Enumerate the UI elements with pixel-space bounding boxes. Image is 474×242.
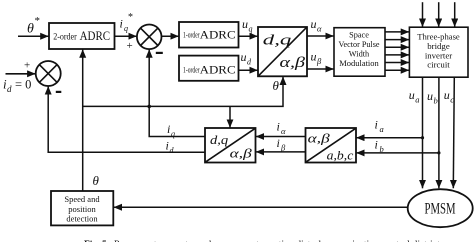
svg-text:b: b (434, 95, 438, 105)
node junction crossing dot iq/theta (147, 105, 151, 109)
summing junction 2 (36, 61, 61, 86)
svg-text:i: i (375, 138, 378, 152)
svg-text:a: a (415, 94, 419, 104)
wire SVPWM to inverter arrow 5 (385, 62, 409, 64)
summing junction 1 (137, 25, 162, 50)
wire i-alpha: abc block to reverse dq block (256, 136, 306, 138)
svg-text:1-order: 1-order (183, 65, 200, 74)
svg-text:u: u (444, 88, 450, 102)
svg-text:θ: θ (27, 22, 34, 37)
block dq to alpha-beta transform (reverse, current) (205, 128, 256, 163)
svg-text:= 0: = 0 (15, 78, 31, 92)
wire theta* input (18, 35, 49, 37)
svg-text:position: position (68, 204, 96, 214)
svg-text:d: d (7, 84, 12, 94)
svg-text:d,q: d,q (210, 132, 229, 147)
svg-text:α,β: α,β (230, 145, 253, 160)
svg-text:Space: Space (349, 31, 369, 40)
svg-text:*: * (128, 12, 133, 23)
node junction dot ia tap (421, 136, 424, 139)
wire ud: 1-order ADRC lower to dq/ab transform (239, 69, 258, 71)
svg-text:α: α (317, 24, 322, 34)
wire iq: reverse dq block to summing junction 1 (149, 49, 205, 136)
svg-text:Width: Width (349, 50, 370, 59)
wire id=0 input (6, 73, 36, 75)
node PMSM motor (408, 189, 473, 227)
wire phase b line inverter to PMSM (438, 77, 440, 188)
svg-text:Speed and: Speed and (64, 194, 100, 204)
wire id: reverse dq block to summing junction 2 (48, 86, 205, 152)
svg-text:Vector Pulse: Vector Pulse (339, 40, 380, 49)
svg-text:+: + (24, 60, 30, 72)
svg-text:q: q (124, 24, 128, 33)
block 1-order ADRC lower (179, 56, 239, 81)
wire dc supply arrow 2 into inverter top (438, 2, 440, 27)
svg-text:u: u (241, 50, 247, 64)
wire phase c line inverter to PMSM (453, 77, 454, 188)
wire i-beta: abc block to reverse dq block (256, 151, 306, 153)
svg-text:ADRC: ADRC (200, 30, 236, 42)
wire u-alpha: forward transform to SVPWM (307, 35, 333, 37)
wire ia tap from phase a (356, 137, 422, 139)
wire theta drop into reverse dq block (229, 106, 231, 127)
svg-text:i: i (166, 139, 169, 153)
block alpha-beta to abc transform (306, 128, 357, 163)
wire theta horizontal branch (83, 77, 283, 107)
node junction dot ib tap (437, 151, 440, 154)
svg-text:u: u (427, 89, 433, 103)
wire SVPWM to inverter arrow 4 (385, 54, 409, 56)
svg-text:i: i (277, 136, 280, 150)
wire dc supply arrow 1 into inverter top (422, 2, 424, 27)
wire SVPWM to inverter arrow 1 (385, 31, 409, 33)
svg-text:β: β (280, 143, 286, 153)
svg-text:a: a (380, 124, 384, 134)
svg-text:circuit: circuit (427, 60, 450, 70)
svg-text:Modulation: Modulation (339, 59, 379, 68)
block Space Vector Pulse Width Modulation (334, 28, 385, 76)
block dq to alpha-beta transform (forward) (258, 27, 307, 76)
wire 2-order ADRC to summing junction (115, 35, 137, 37)
wire u-beta: forward transform to SVPWM (307, 68, 333, 70)
block speed and position detection (51, 191, 113, 225)
wire SVPWM to inverter arrow 2 (385, 39, 409, 41)
svg-text:ADRC: ADRC (200, 65, 236, 77)
svg-text:i: i (375, 118, 378, 132)
wire dc supply arrow 3 into inverter top (454, 2, 456, 27)
svg-text:d,q: d,q (263, 33, 292, 49)
svg-text:ADRC: ADRC (80, 28, 111, 43)
svg-text:q: q (249, 24, 253, 33)
svg-text:c: c (450, 94, 454, 104)
node minus sign at summing junction 2 (56, 91, 62, 93)
wire phase a line inverter to PMSM (422, 77, 424, 188)
svg-text:a,b,c: a,b,c (327, 148, 354, 163)
svg-text:detection: detection (66, 213, 98, 223)
svg-text:*: * (35, 15, 41, 27)
svg-text:u: u (409, 88, 415, 102)
svg-text:PMSM: PMSM (425, 200, 456, 217)
wire uq: 1-order ADRC upper to dq/ab transform (239, 35, 258, 37)
svg-text:u: u (242, 17, 248, 31)
svg-text:θ: θ (273, 78, 280, 93)
wire theta trunk: speed detection up to 2-order ADRC (82, 49, 84, 191)
svg-text:q: q (171, 130, 175, 139)
wire ib tap from phase b (356, 152, 439, 154)
wire summing junction 1 to 1-order ADRC (162, 35, 179, 37)
svg-text:α,β: α,β (308, 131, 331, 146)
svg-text:u: u (311, 50, 317, 64)
svg-text:u: u (311, 17, 317, 31)
svg-text:b: b (380, 144, 384, 154)
svg-text:+: + (127, 40, 133, 52)
svg-text:β: β (316, 56, 322, 66)
svg-text:α,β: α,β (280, 55, 306, 71)
node minus sign at summing junction 1 (156, 52, 163, 54)
block 1-order ADRC upper (179, 22, 239, 48)
svg-text:1-order: 1-order (183, 30, 200, 39)
svg-text:θ: θ (93, 173, 100, 188)
svg-text:2-order: 2-order (53, 31, 77, 41)
svg-text:i: i (120, 17, 123, 31)
wire SVPWM to inverter arrow 6 (385, 69, 409, 71)
wire SVPWM to inverter arrow 3 (385, 46, 409, 48)
svg-text:i: i (167, 122, 170, 136)
wire PMSM to speed detection (114, 206, 408, 208)
block three-phase bridge inverter circuit (409, 27, 468, 77)
svg-text:α: α (281, 126, 286, 136)
block 2-order ADRC (49, 23, 115, 49)
svg-text:i: i (277, 120, 280, 134)
